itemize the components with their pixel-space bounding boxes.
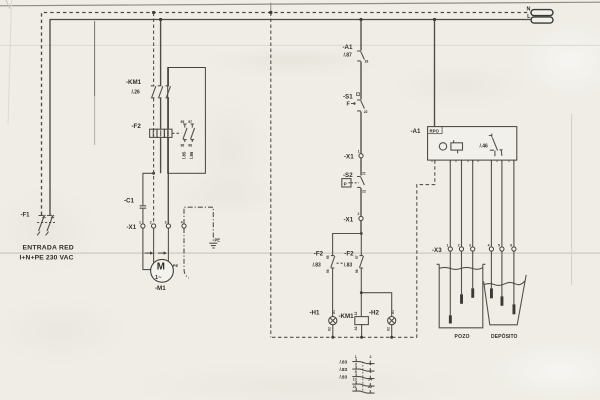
svg-text:/.83: /.83 [340, 375, 348, 380]
svg-text:4: 4 [181, 221, 183, 225]
svg-text:M: M [157, 262, 165, 273]
svg-text:X1: X1 [391, 310, 395, 314]
svg-text:1: 1 [447, 244, 449, 248]
svg-text:6: 6 [370, 370, 372, 374]
svg-text:-KM1: -KM1 [126, 79, 142, 86]
svg-text:1: 1 [355, 355, 357, 359]
svg-text:-S1: -S1 [343, 94, 353, 101]
svg-text:-F2: -F2 [132, 123, 142, 130]
svg-text:X1: X1 [332, 310, 336, 314]
svg-text:1: 1 [358, 149, 360, 153]
svg-text:5: 5 [498, 244, 500, 248]
svg-text:4: 4 [488, 244, 490, 248]
svg-text:-F2: -F2 [344, 251, 354, 258]
svg-text:-H2: -H2 [369, 310, 380, 317]
svg-text:-C1: -C1 [124, 198, 135, 205]
svg-text:21: 21 [362, 172, 366, 176]
svg-text:18: 18 [365, 60, 369, 64]
svg-text:1~: 1~ [155, 275, 162, 281]
svg-text:A2: A2 [354, 326, 358, 330]
svg-text:96: 96 [326, 269, 330, 273]
svg-text:-A1: -A1 [411, 128, 422, 135]
svg-text:-X1: -X1 [127, 224, 137, 231]
svg-text:-X1: -X1 [344, 216, 354, 223]
svg-text:/.83: /.83 [313, 263, 322, 269]
svg-text:-X1: -X1 [344, 153, 354, 160]
svg-text:98: 98 [188, 144, 192, 148]
svg-text:2: 2 [370, 355, 372, 359]
svg-text:14: 14 [368, 378, 372, 382]
svg-text:X2: X2 [387, 327, 391, 331]
svg-text:3: 3 [355, 363, 357, 367]
svg-text:22: 22 [368, 385, 372, 389]
svg-text:P: P [344, 181, 347, 186]
svg-text:/.86: /.86 [189, 151, 194, 159]
svg-text:22: 22 [364, 110, 368, 114]
svg-text:4: 4 [370, 363, 372, 367]
svg-text:1: 1 [139, 221, 141, 225]
svg-text:98: 98 [355, 269, 359, 273]
svg-text:/.83: /.83 [340, 360, 348, 365]
svg-text:-KM1: -KM1 [339, 313, 355, 320]
svg-text:/.26: /.26 [132, 90, 141, 96]
svg-text:13: 13 [353, 378, 357, 382]
svg-text:-F1: -F1 [21, 213, 31, 219]
svg-text:21: 21 [353, 385, 357, 389]
svg-text:-M1: -M1 [155, 285, 166, 292]
svg-text:22: 22 [362, 190, 366, 194]
svg-text:-S2: -S2 [343, 172, 353, 179]
svg-text:2: 2 [458, 244, 460, 248]
svg-text:ENTRADA RED: ENTRADA RED [23, 245, 74, 252]
svg-text:95: 95 [181, 120, 185, 124]
svg-text:97: 97 [355, 255, 359, 259]
svg-text:2: 2 [150, 221, 152, 225]
svg-text:97: 97 [188, 120, 192, 124]
svg-text:95: 95 [326, 255, 330, 259]
svg-text:I+N+PE 230 VAC: I+N+PE 230 VAC [20, 255, 74, 262]
svg-text:3: 3 [165, 221, 167, 225]
svg-text:/.87: /.87 [344, 53, 353, 59]
svg-text:6: 6 [510, 244, 512, 248]
svg-text:-F2: -F2 [314, 251, 324, 258]
svg-text:-A1: -A1 [343, 44, 354, 51]
svg-text:PE: PE [215, 237, 221, 242]
svg-text:/.83: /.83 [344, 263, 353, 269]
svg-text:POZO: POZO [455, 334, 470, 340]
svg-text:3: 3 [469, 244, 471, 248]
svg-text:DEPÓSITO: DEPÓSITO [491, 332, 518, 340]
svg-text:/.85: /.85 [182, 151, 187, 159]
svg-text:/.46: /.46 [480, 143, 489, 149]
svg-text:-X3: -X3 [432, 247, 442, 254]
svg-text:RPO: RPO [430, 128, 440, 133]
svg-text:X2: X2 [328, 327, 332, 331]
svg-text:5: 5 [355, 370, 357, 374]
svg-text:A1: A1 [354, 311, 358, 315]
svg-text:PE: PE [173, 263, 179, 268]
svg-text:N: N [527, 6, 531, 12]
svg-text:-H1: -H1 [310, 310, 321, 317]
svg-text:2: 2 [358, 212, 360, 216]
svg-text:96: 96 [181, 144, 185, 148]
svg-text:/.83: /.83 [340, 367, 348, 372]
